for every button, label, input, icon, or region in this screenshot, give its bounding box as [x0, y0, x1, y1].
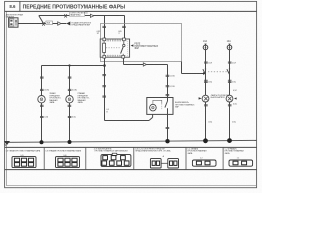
- battery B1: [9, 18, 18, 27]
- relay internal dashed link: [106, 47, 120, 49]
- fuse value label 30A: [46, 21, 53, 25]
- connector arrow on upper wire: [90, 14, 93, 17]
- legend cell 2 connector I-06: [45, 150, 81, 168]
- legend cell 1 connector I-05: [6, 150, 41, 168]
- ganged switch blades: [203, 68, 230, 74]
- fog lamp right E2: [66, 96, 73, 103]
- connector tick on relay feed 1: [97, 26, 106, 35]
- fog lamp switch S1 box: [147, 98, 173, 115]
- legend row frame: [5, 147, 257, 170]
- ignition switch blade: [39, 16, 44, 24]
- wire upper feed: [39, 16, 125, 39]
- wire relay contact output: [124, 58, 168, 97]
- wire size label 0.5V: [106, 109, 108, 113]
- label arrow to illumination lamp: [199, 97, 202, 99]
- fog lamp left E1: [38, 96, 45, 103]
- wire lamp L2 ground: [228, 102, 237, 141]
- fuse F1 feed arrow: [203, 40, 208, 50]
- legend cell 6 connector C-2: [225, 147, 253, 166]
- ground node illumination right: [227, 138, 232, 143]
- connector ticks upper illumination wires: [204, 62, 236, 64]
- wire lamps bus: [42, 65, 105, 67]
- wire left lamp drop: [41, 66, 43, 96]
- wire right lamp drop: [69, 66, 71, 96]
- legend cell 3 connector M-9: [94, 147, 131, 166]
- wire relay coil output: [105, 58, 153, 120]
- wire lamp L1 ground: [204, 102, 213, 141]
- connector ticks on lamp grounds: [40, 105, 76, 118]
- relay contact: [121, 41, 125, 55]
- mechanical gang dashed link: [208, 71, 228, 73]
- wire illumination lamp left: [205, 50, 207, 96]
- junction block outline: [101, 24, 182, 62]
- relay label arrow: [131, 44, 134, 46]
- chassis ground symbol G1: [4, 141, 10, 146]
- junction node lamps feed: [103, 64, 106, 67]
- junction node lamp right: [68, 64, 70, 66]
- wire battery feed lower: [18, 23, 66, 25]
- ground node switch: [165, 139, 169, 143]
- page frame outer border: [5, 1, 257, 187]
- illumination lamp right L2: [226, 95, 233, 102]
- fuse box note text: [71, 21, 92, 26]
- connector ticks on switch wire: [166, 75, 176, 96]
- ground bus: [5, 140, 257, 142]
- relay label text: [134, 43, 158, 50]
- switch illumination lamp: [150, 100, 162, 111]
- ground node illumination left: [203, 138, 208, 143]
- connector ticks on coil wire: [102, 75, 106, 98]
- fusible link cross mark: [42, 22, 45, 25]
- ground node lamp left: [40, 140, 44, 144]
- wire label above upper wire: [70, 12, 89, 17]
- ground node lamp right: [68, 140, 72, 144]
- wire switch ground: [166, 114, 170, 141]
- fuse F2 feed arrow: [227, 40, 232, 50]
- fog lamp right label: [78, 92, 90, 104]
- wire illumination lamp right: [229, 50, 231, 96]
- connector ticks on lamp drops: [40, 77, 78, 91]
- title bar: [5, 1, 257, 11]
- connector ticks below switches: [204, 80, 236, 83]
- illumination lamp left L1: [202, 95, 209, 102]
- fog lamp left label: [49, 92, 61, 104]
- connector arrow on battery wire: [58, 22, 61, 25]
- battery B1 label: [6, 13, 24, 18]
- arrow into illumination circuit: [203, 72, 206, 75]
- tick labels beside lamp right: [233, 90, 237, 106]
- legend cell 4 connector C-5: [135, 147, 178, 168]
- connector tick on relay feed 2: [118, 26, 126, 35]
- legend cell 5 connector C-1: [187, 147, 216, 166]
- switch label text: [175, 101, 195, 108]
- connector cross mark on upper wire: [64, 14, 67, 17]
- connector arrow on contact wire: [143, 63, 146, 66]
- wire left lamp ground: [41, 103, 43, 142]
- wire illumination feed from junction block: [182, 62, 204, 74]
- relay K1: [100, 38, 129, 58]
- continuation arrow to fuse box: [66, 22, 70, 26]
- wire right lamp ground: [69, 103, 71, 142]
- switch contact: [165, 98, 168, 115]
- relay coil: [103, 41, 106, 55]
- illumination lamps label: [211, 94, 230, 99]
